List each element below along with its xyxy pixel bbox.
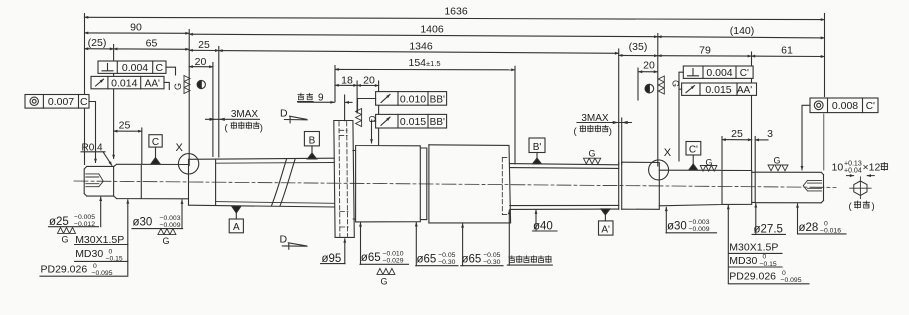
dimension 79 [658,45,752,57]
svg-text:G: G [589,149,596,159]
grind triangles and G under Ø25 [58,227,76,244]
G grind mark on Ø30 right journal [700,157,717,171]
dimension 3 right end [755,128,773,140]
shaft section Ø65 ground journal [353,146,420,222]
extension line x141.8 thread end to 25 dim [141,128,143,164]
svg-text:ø65: ø65 [462,254,482,266]
svg-text:A': A' [601,225,610,236]
extension line right end x824.5 upper [824,14,826,97]
svg-text:G: G [173,83,183,90]
svg-text:+0.04: +0.04 [844,168,862,175]
label Ø25 tolerance left [49,197,101,228]
svg-text:C': C' [740,68,749,79]
svg-text:C: C [156,62,164,74]
dimension 61 [751,45,824,57]
shaft section Ø28 end [755,172,823,203]
extension line x189 C station [188,30,190,166]
extension line x218.8 [218,47,220,158]
svg-text:0: 0 [109,248,113,255]
svg-text:0.004: 0.004 [706,67,732,79]
extension line x636.7 [637,68,639,100]
dimension 65 [114,38,190,50]
relief groove between Ø65 sections [421,145,429,223]
svg-text:AA': AA' [145,78,160,89]
svg-text:G: G [671,80,681,87]
extension line x357.1 [356,81,358,113]
datum A box and triangle [229,206,243,233]
svg-text:B: B [309,135,316,146]
svg-text:90: 90 [130,22,142,34]
rotated G grind mark at flange left face [356,109,377,127]
svg-text:×12: ×12 [863,162,881,174]
label M30X1.5P right [729,241,783,253]
FCF perpendicularity 0.004 C left [98,61,176,75]
svg-text:G: G [381,276,388,286]
grind triangles and G under Ø65 [377,268,395,286]
dimension 25 right end [722,128,752,140]
dimension 18 [335,74,357,86]
svg-text:PD29.026: PD29.026 [729,271,776,283]
FCF concentricity 0.008 C' right [802,98,878,170]
svg-text:0.015: 0.015 [705,84,731,96]
center hole mark right end [803,180,821,191]
svg-text:): ) [260,123,263,134]
svg-text:−0.095: −0.095 [781,277,802,284]
svg-text:20: 20 [643,60,655,72]
shaft section M30 thread right [722,170,752,204]
svg-text:65: 65 [146,38,158,50]
svg-text:−0.30: −0.30 [438,259,455,266]
relief groove right [752,172,755,203]
svg-text:−0.010: −0.010 [383,251,404,258]
svg-text:0.008: 0.008 [832,100,858,112]
datum C box and triangle left [149,135,162,164]
svg-text:(35): (35) [629,41,648,53]
svg-text:G: G [367,116,377,123]
dimension 20 mid [357,74,379,86]
extension line x113.6 with arrow to step [113,45,115,159]
svg-text:0.010: 0.010 [400,93,426,105]
shaft section left ball screw [189,158,335,207]
FCF runout 0.014 A-A' left [91,76,169,89]
svg-text:): ) [609,126,612,137]
svg-text:0: 0 [763,254,767,261]
svg-text:20: 20 [363,74,375,86]
dimension 1406 [189,24,658,37]
FCF runout 0.010 B-B' [358,92,447,112]
svg-text:M30X1.5P: M30X1.5P [729,241,778,253]
label MD30 left [75,248,128,263]
shaft section Ø65 main block [429,145,511,223]
dimension (25) [85,37,114,49]
svg-text:10: 10 [832,162,844,174]
oil hole label 油孔 9 [298,93,353,104]
extension line x722 [721,137,723,170]
shaft centerline [74,181,836,187]
dimension 1346 [219,40,619,53]
svg-text:X: X [664,147,672,159]
svg-text:3MAX: 3MAX [231,109,259,120]
label Ø65 -0.05/-0.30 first [416,223,458,266]
svg-text:+0.13: +0.13 [844,160,862,167]
svg-text:20: 20 [195,56,207,68]
rotated G grind mark at left shoulder face [173,76,190,94]
svg-text:AA': AA' [737,85,752,96]
svg-text:ø30: ø30 [133,216,153,228]
dimension 20 left [189,56,213,68]
svg-text:G: G [774,155,781,165]
thread end lines right screw [619,162,622,209]
svg-text:−0.009: −0.009 [160,222,181,229]
datum B box and triangle [304,132,319,159]
svg-text:−0.009: −0.009 [689,226,710,233]
svg-text:154±1.5: 154±1.5 [409,57,441,69]
svg-text:C': C' [689,145,698,156]
label (both ends) [849,201,875,212]
svg-text:B': B' [533,142,542,153]
svg-text:1346: 1346 [409,40,433,52]
label Ø30 tolerance right [666,207,717,233]
extension line x755.2 [754,137,756,172]
extension line x335 [334,66,336,102]
svg-text:ø65: ø65 [417,254,437,266]
label Ø28 0/-0.016 [798,204,847,235]
svg-text:61: 61 [781,45,793,57]
svg-text:25: 25 [119,120,131,132]
svg-text:25: 25 [731,128,743,140]
G grind mark on right screw [584,149,601,164]
svg-text:1636: 1636 [444,6,468,18]
G grind mark on Ø28 end [768,155,788,170]
section view arrow D upper [280,108,307,123]
dimension 20 right [639,60,658,72]
3MAX incomplete thread note left [206,109,263,133]
svg-text:−0.003: −0.003 [160,215,181,222]
svg-text:ø27.5: ø27.5 [754,223,783,235]
extension line x751.5 [751,52,753,170]
datum B' box and triangle [529,138,545,164]
svg-text:X: X [176,142,184,154]
svg-text:1406: 1406 [420,24,444,36]
svg-text:MD30: MD30 [75,248,103,260]
svg-text:25: 25 [198,39,210,51]
svg-text:0.007: 0.007 [48,96,74,108]
extension line x212.9 [212,63,214,157]
svg-text:0: 0 [93,263,97,270]
extension line x621.7 thread end right [621,118,623,164]
extension line x378.6 [378,81,380,145]
svg-text:18: 18 [341,74,353,86]
hex socket end view [847,176,875,199]
section view arrow D lower [280,234,308,250]
label PD29.026 right [728,206,809,285]
svg-text:C: C [152,137,159,148]
half-tone circle symbol left [197,80,205,88]
extension line x515 [514,66,516,164]
flange Ø95 [334,121,355,238]
FCF concentricity 0.007 C far left [25,95,96,163]
svg-text:G: G [62,235,69,245]
dimension 25 (left of C) [189,39,219,51]
label MD30 right [729,254,783,268]
shoulder right [622,162,660,209]
dimension 90 [85,22,190,34]
shaft section M30 thread + Ø30 journal left [114,160,189,205]
shaft section right ball screw Ø40 [510,164,619,210]
label Ø27.5 [752,204,785,236]
svg-text:−0.029: −0.029 [383,258,404,265]
hidden line in Ø65 block [502,157,509,214]
svg-text:BB': BB' [430,94,445,105]
FCF runout 0.015 B-B' [372,114,447,143]
dimension (140) [658,25,825,38]
svg-text:ø95: ø95 [322,253,342,265]
half-tone circle symbol right [645,84,654,93]
svg-text:−0.05: −0.05 [483,252,500,259]
svg-text:): ) [872,201,875,212]
label Ø95 [321,239,345,265]
datum A' box and triangle [599,209,614,236]
dimension (35) [619,41,658,56]
note wipers at both ends [507,210,552,265]
rotated G grind mark at right shoulder face [658,76,680,94]
svg-text:0.014: 0.014 [111,77,137,89]
dimension 154±1.5 [335,57,515,70]
circle X left [178,154,198,174]
label M30X1.5P left [75,234,128,246]
svg-text:(25): (25) [88,37,107,49]
svg-text:−0.30: −0.30 [483,259,500,266]
svg-text:G: G [163,236,170,246]
label Ø30 tolerance left [132,200,183,229]
svg-text:MD30: MD30 [729,255,757,267]
svg-text:D: D [280,234,288,246]
svg-text:0.004: 0.004 [122,62,148,74]
svg-text:ø30: ø30 [667,221,687,233]
svg-text:0: 0 [824,220,828,227]
circle X right [649,160,669,180]
datum C' box and triangle [686,142,701,170]
label Ø65 -0.05/-0.30 second [461,224,503,266]
svg-text:C: C [80,96,88,108]
svg-text:3: 3 [767,128,773,140]
flange oil hole hidden lines [339,122,348,237]
thread break diagonals left screw [272,159,296,206]
svg-text:ø65: ø65 [361,252,381,264]
label Ø65 -0.010/-0.029 [360,223,409,265]
svg-text:C': C' [866,101,875,112]
label Ø40 [533,210,558,232]
svg-text:BB': BB' [430,117,445,128]
shaft section Ø30 journal right [659,170,722,206]
svg-text:−0.003: −0.003 [689,219,710,226]
FCF perpendicularity 0.004 C' right [679,66,753,161]
center hole mark left end [86,174,104,187]
svg-text:(140): (140) [730,25,755,37]
extension line x344.6 oil hole [344,95,346,121]
extension line right end x824 lower [823,114,825,170]
dimension 1636 overall length [85,6,825,20]
svg-text:0.015: 0.015 [400,116,426,128]
svg-text:ø28: ø28 [799,222,819,234]
extension line x657.8 X station [657,34,659,167]
svg-text:PD29.026: PD29.026 [41,264,88,276]
label 10 +0.13 +0.04 x12 depth [832,160,888,174]
dimension 25 above left C datum [114,120,142,132]
svg-text:−0.05: −0.05 [438,252,455,259]
shaft section Ø25 left stub [84,166,113,196]
R0.4 fillet callout [81,142,112,165]
svg-text:−0.005: −0.005 [74,214,95,221]
svg-text:79: 79 [699,45,711,57]
label PD29.026 left [40,200,128,277]
3MAX incomplete thread note right [574,113,632,137]
svg-text:D: D [280,108,288,120]
grind triangles and G under Ø30 left [158,229,176,246]
extension line left end x84 [84,14,86,165]
FCF runout 0.015 A-A' right [679,83,757,96]
svg-text:0: 0 [782,270,786,277]
svg-text:A: A [233,222,240,233]
extension line x618.7 [618,49,620,164]
